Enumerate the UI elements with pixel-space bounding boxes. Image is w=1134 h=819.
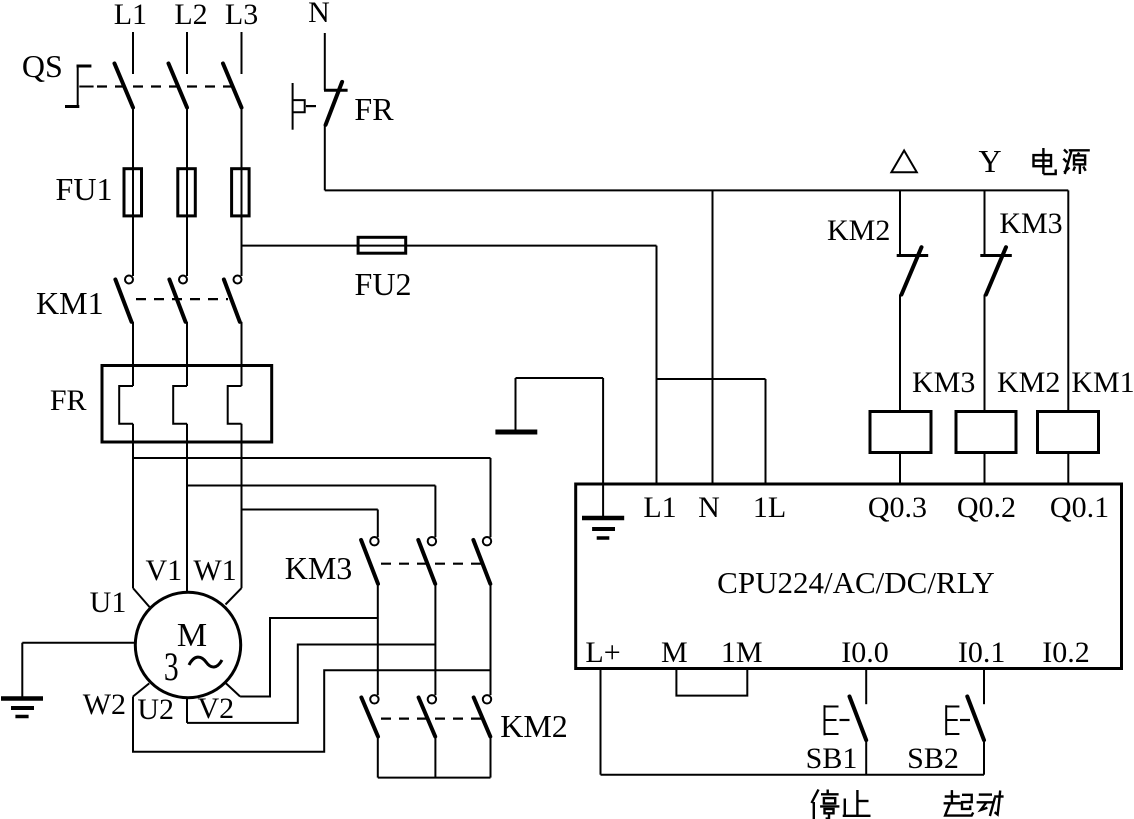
svg-text:FU1: FU1	[56, 171, 113, 207]
PLC U1 box CPU224	[576, 484, 1122, 669]
wire W2 to KM3 column 3	[133, 670, 491, 751]
wire KM3 column 3 upper	[490, 458, 492, 537]
svg-text:SB1: SB1	[806, 742, 858, 775]
contactor KM1 pole 3 fixed contact	[234, 276, 242, 284]
button SB1 actuator	[825, 705, 839, 735]
svg-text:KM2: KM2	[500, 708, 568, 744]
wire V1 phase down	[186, 424, 188, 593]
node delta symbol	[891, 151, 916, 173]
wire branch V1 to KM3 column 2	[187, 485, 435, 487]
svg-text:Q0.2: Q0.2	[957, 491, 1016, 524]
contactor KM2 pole 3 fixed contact	[483, 695, 491, 703]
wire U2 to KM3 column 2	[187, 645, 435, 723]
svg-text:I0.2: I0.2	[1042, 636, 1090, 669]
svg-text:Y: Y	[978, 143, 1001, 179]
contactor KM3 pole 2 blade	[418, 540, 435, 584]
button SB2 blade	[967, 697, 984, 741]
svg-text:KM1: KM1	[1071, 366, 1134, 399]
fuse FU1 pole 1	[124, 169, 142, 216]
svg-text:KM3: KM3	[285, 550, 353, 586]
svg-text:Q0.3: Q0.3	[868, 491, 927, 524]
wire L1 QS to KM1	[132, 108, 134, 277]
contactor KM3 pole 1 blade	[361, 540, 378, 584]
wire L3 KM1 to FR	[241, 322, 243, 386]
wire L3 QS to KM1	[241, 108, 243, 277]
wire N horizontal bus	[325, 189, 1069, 191]
svg-text:N: N	[308, 0, 330, 29]
svg-text:KM3: KM3	[912, 366, 975, 399]
svg-text:FR: FR	[50, 384, 87, 417]
wire motor frame to earth	[22, 643, 135, 697]
wire Y column upper	[984, 190, 986, 255]
wire U1 phase down	[132, 424, 134, 588]
wire KM3 column 3 lower	[490, 584, 492, 695]
wire branch U1 to KM3 column 3	[133, 457, 491, 459]
svg-text:CPU224/AC/DC/RLY: CPU224/AC/DC/RLY	[717, 565, 995, 600]
svg-text:KM2: KM2	[997, 366, 1060, 399]
svg-text:1L: 1L	[753, 491, 786, 524]
wire M to 1M jumper	[676, 669, 747, 696]
svg-text:KM2: KM2	[827, 214, 890, 247]
contactor KM3 link dashed line	[381, 563, 482, 565]
wire U2 lead	[186, 697, 188, 723]
svg-text:W1: W1	[193, 554, 236, 587]
fuse FU1 pole 2	[178, 169, 196, 216]
coil KM1 box	[1038, 412, 1099, 453]
wire I0.0 down	[865, 669, 867, 705]
wire KM2 column 1 bottom	[377, 737, 379, 778]
wire W1 phase down	[241, 424, 243, 588]
button SB2 actuator	[946, 705, 959, 735]
wire N below FR contact	[324, 125, 326, 191]
contactor KM2 pole 2 fixed contact	[428, 695, 436, 703]
wire L1 KM1 to FR	[132, 322, 134, 386]
svg-text:SB2: SB2	[907, 742, 959, 775]
svg-text:Q0.1: Q0.1	[1050, 491, 1109, 524]
contactor KM2 link dashed line	[381, 717, 482, 719]
svg-text:U1: U1	[90, 586, 127, 619]
wire coil KM3 to Q0.3	[899, 453, 901, 485]
svg-text:W2: W2	[83, 688, 126, 721]
wire L2 top stub	[186, 32, 188, 74]
motor M1 circle	[135, 592, 240, 697]
motor M1 tilde	[189, 657, 222, 667]
ground PE bar	[495, 430, 537, 435]
contactor KM2 NC interlock fixed tick	[897, 254, 929, 257]
svg-text:L3: L3	[225, 0, 258, 31]
contactor KM3 pole 3 blade	[473, 540, 490, 584]
wire KM2 star point bus	[378, 777, 491, 779]
wire Y column to coil KM2	[984, 295, 986, 412]
wire FU2 body line	[358, 245, 406, 247]
svg-text:L1: L1	[114, 0, 147, 31]
wire L1 top stub	[132, 32, 134, 74]
wire V2 slanted lead	[226, 683, 240, 696]
wire FU2 to PLC L1 vertical	[656, 246, 658, 484]
svg-text:KM1: KM1	[36, 285, 104, 321]
wire KM3 column 2 upper	[434, 486, 436, 538]
coil KM2 box	[956, 412, 1016, 453]
svg-text:1M: 1M	[721, 636, 763, 669]
thermal relay FR actuator	[293, 83, 305, 130]
svg-text:I0.1: I0.1	[958, 636, 1006, 669]
svg-text:FU2: FU2	[355, 266, 412, 302]
wire coil KM1 to Q0.1	[1067, 453, 1069, 485]
wire U1 slanted lead	[133, 588, 150, 607]
wire PLC ground link vertical stub	[515, 378, 517, 430]
wire W1 slanted lead	[226, 588, 242, 604]
node start label qidong	[944, 790, 1004, 816]
thermal relay FR NC contact blade	[326, 82, 343, 125]
button SB2 dashed link	[960, 719, 974, 721]
wire power column to coil KM1	[1067, 190, 1069, 411]
svg-text:L2: L2	[174, 0, 207, 31]
wire PLC ground down	[602, 378, 604, 518]
coil KM3 box	[870, 412, 931, 453]
switch QS link dashed line	[97, 85, 232, 87]
contactor KM1 pole 3 blade	[224, 280, 240, 322]
svg-text:FR: FR	[354, 91, 394, 127]
fuse FU2 body	[358, 237, 406, 253]
wire SB2 to bus	[983, 740, 985, 775]
wire N branch to PLC	[712, 190, 714, 484]
thermal relay FR actuator dashed link	[306, 105, 324, 107]
wire L3 to FU2	[242, 245, 359, 247]
svg-text:L1: L1	[643, 491, 676, 524]
wire L+ down	[600, 669, 602, 775]
contactor KM1 pole 1 blade	[115, 280, 131, 322]
wire KM3 column 2 lower	[434, 584, 436, 695]
wire 1L branch vertical	[765, 379, 767, 484]
svg-text:V2: V2	[197, 692, 234, 725]
wire FU2 to PLC L1 horizontal	[406, 245, 657, 247]
wire KM3 column 1 upper	[377, 510, 379, 538]
svg-text:KM3: KM3	[999, 207, 1062, 240]
thermal relay FR heater 3	[228, 386, 242, 424]
contactor KM3 pole 2 fixed contact	[428, 537, 436, 545]
ground left earth symbol	[1, 699, 43, 717]
svg-text:U2: U2	[137, 693, 174, 726]
wire KM3 column 1 lower	[377, 584, 379, 695]
thermal relay FR NC contact upper wire (N line)	[324, 33, 326, 90]
wire L3 top stub	[241, 32, 243, 74]
ground PLC earth symbol	[582, 518, 624, 538]
button SB1 blade	[850, 697, 867, 741]
contactor KM1 pole 1 fixed contact	[125, 276, 133, 284]
svg-text:M: M	[661, 636, 688, 669]
contactor KM2 pole 2 blade	[419, 698, 436, 737]
wire KM2 column 3 bottom	[490, 737, 492, 778]
contactor KM3 NC interlock fixed tick	[980, 254, 1012, 257]
svg-text:L+: L+	[585, 636, 620, 669]
contactor KM1 pole 2 fixed contact	[179, 276, 187, 284]
wire V2 to KM3 column 1	[240, 618, 378, 697]
switch QS pole 2 blade	[169, 64, 188, 108]
svg-text:QS: QS	[22, 48, 63, 84]
svg-text:3: 3	[164, 645, 179, 689]
svg-text:M: M	[177, 617, 207, 654]
thermal relay FR box	[102, 366, 272, 443]
contactor KM3 pole 3 fixed contact	[483, 537, 491, 545]
wire KM2 column 2 bottom	[434, 737, 436, 778]
svg-text:N: N	[698, 491, 720, 524]
svg-text:V1: V1	[145, 554, 182, 587]
wire delta column to coil KM3	[899, 295, 901, 412]
wire branch W1 to KM3 column 1	[242, 509, 378, 511]
thermal relay FR NC contact fixed tick	[324, 89, 348, 92]
fuse FU1 pole 3	[232, 169, 250, 216]
thermal relay FR heater 2	[173, 386, 187, 424]
wire coil KM2 to Q0.2	[984, 453, 986, 485]
node stop label tingzhi	[812, 790, 871, 819]
node power label dianyuan	[1034, 148, 1090, 174]
contactor KM1 pole 2 blade	[169, 280, 185, 322]
contactor KM1 link dashed line	[136, 298, 228, 300]
wire L2 KM1 to FR	[186, 322, 188, 386]
wire 1L branch horizontal	[657, 378, 766, 380]
button SB1 dashed link	[840, 719, 857, 721]
contactor KM2 pole 1 fixed contact	[370, 695, 378, 703]
contactor KM2 NC interlock blade	[902, 247, 922, 294]
switch QS pole 1 blade	[115, 64, 134, 108]
thermal relay FR heater 1	[119, 386, 133, 424]
contactor KM3 pole 1 fixed contact	[370, 537, 378, 545]
switch QS pole 3 blade	[223, 64, 242, 108]
wire SB1 to bus	[865, 740, 867, 775]
contactor KM3 NC interlock blade	[986, 247, 1006, 294]
wire L2 QS to KM1	[186, 108, 188, 277]
contactor KM2 pole 3 blade	[474, 698, 491, 737]
wire W2 slanted lead	[133, 683, 149, 696]
svg-text:I0.0: I0.0	[841, 636, 889, 669]
switch QS handle	[65, 65, 94, 107]
wire delta column upper	[899, 190, 901, 255]
contactor KM2 pole 1 blade	[361, 698, 378, 737]
wire PLC ground link horizontal	[516, 377, 604, 379]
wire bottom bus	[601, 774, 985, 776]
wire I0.1 down	[983, 669, 985, 705]
